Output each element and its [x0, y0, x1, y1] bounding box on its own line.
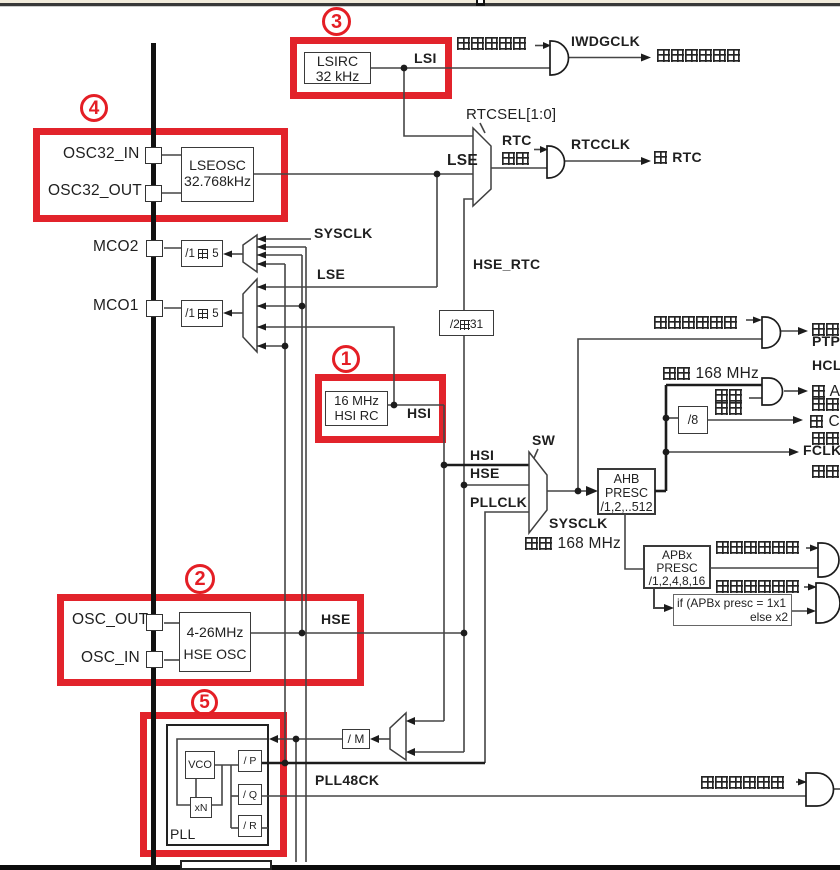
label LSE MCO	[317, 267, 345, 282]
wire PLLI2S vertical	[305, 247, 307, 862]
block divider /2 to 31	[439, 310, 494, 336]
and-gate IWDG	[550, 41, 569, 75]
label MCO1	[93, 298, 139, 314]
arrow if box input	[664, 604, 674, 612]
wire divider feed vertical	[230, 765, 232, 828]
wire MCO2 PLLI2S input	[257, 246, 306, 248]
arrow into M divider	[370, 735, 379, 743]
arrow MCO2 divider input	[223, 251, 232, 258]
wire HSE to PLL source mux	[414, 751, 464, 753]
arrow watchdog enable	[543, 42, 551, 49]
arrow HCLK output	[798, 387, 808, 395]
arrow MCO2 mux input PLLI2S	[257, 244, 266, 251]
wire SW mux output SYSCLK	[547, 490, 587, 492]
label HCLK out	[812, 358, 840, 373]
wire HSI output from RC	[388, 404, 444, 406]
top border line	[0, 3, 840, 6]
arrow PLL48 enable	[798, 779, 807, 786]
arrow PLL mux HSI input	[406, 717, 415, 725]
wire if box output	[792, 610, 809, 612]
label HSI at RC	[407, 406, 431, 421]
annotation red box 4	[33, 128, 288, 222]
wire to R divider	[231, 827, 238, 829]
wire to Q divider	[231, 795, 238, 797]
wire AHB output thick	[655, 490, 666, 493]
pad OSC32_IN	[145, 147, 162, 164]
arrow cortex timer	[793, 416, 803, 424]
wire MCO1 PLL input	[257, 345, 285, 347]
arrow IWDGCLK	[641, 54, 651, 62]
label free run	[812, 464, 840, 480]
wire R divider output	[262, 827, 268, 829]
wire OSC_OUT pad to HSE OSC	[164, 622, 179, 624]
wire PLLCLK vertical to MCO muxes	[284, 264, 286, 763]
PLLI2S cropped box	[180, 860, 272, 870]
wire OSC_IN pad to HSE OSC	[164, 659, 179, 661]
label RTCSEL	[466, 107, 556, 123]
and-gate PLL48	[806, 773, 834, 806]
label SYSCLK under SW	[549, 516, 608, 531]
block xN	[190, 797, 212, 818]
wire HSI to PLL source mux	[414, 720, 444, 722]
label to AHB	[812, 384, 840, 400]
label peripheral clock enable APB2	[716, 579, 800, 595]
label FCLK	[803, 443, 840, 458]
wire PLLI2S shared VCO input vertical	[295, 739, 297, 862]
and-gate ethernet PTP	[762, 317, 780, 348]
wire HCLK 168MHz to gate thick	[666, 384, 762, 387]
wire LSE drop to MCO1 mux	[436, 174, 438, 287]
wire APBx to if box	[654, 589, 666, 608]
label OSC32_OUT	[48, 183, 142, 199]
arrow RTC enable	[540, 146, 548, 153]
wire HSE_RTC vertical to RTC mux	[464, 199, 473, 310]
label peripheral clock enable PLL48	[701, 775, 785, 791]
wire HSI to SW mux thick	[444, 464, 529, 467]
label clock enable HCLK	[715, 388, 743, 404]
wire PLL internal input loop	[177, 739, 267, 805]
wire HCLK vertical thick	[665, 385, 668, 491]
block MCO1 divider /1 to 5	[181, 300, 223, 327]
junction dot HSE line right	[461, 630, 468, 637]
mux MCO1	[243, 279, 257, 352]
arrow APB enable 1	[810, 545, 819, 552]
junction dot FCLK	[663, 449, 670, 456]
arrow PLL mux HSE input	[406, 748, 415, 756]
label OSC_IN	[81, 650, 140, 666]
arrow MCO1 mux input LSE	[257, 284, 266, 291]
block R divider	[238, 815, 262, 837]
label SW	[532, 433, 555, 448]
junction dot PLL M	[293, 736, 300, 743]
block LSEOSC	[181, 147, 254, 202]
block HSI RC	[325, 391, 388, 426]
annotation number 1	[332, 345, 360, 373]
arrow MCO1 mux input HSE	[257, 303, 266, 310]
and-gate APB peripheral	[818, 543, 839, 577]
pad MCO1	[146, 300, 163, 317]
top cropped checkbox glyph	[476, 0, 485, 6]
wire PLL48 gate output	[834, 788, 840, 790]
wire LSE from LSEOSC to RTC mux	[254, 173, 473, 175]
wire VCO to dividers	[215, 764, 238, 766]
label to cortex	[810, 414, 840, 430]
wire M divider input from mux	[378, 738, 390, 740]
arrow PTP enable	[753, 317, 762, 324]
junction dot HSI SW	[441, 462, 448, 469]
arrow PTP output	[798, 327, 808, 335]
wire MCO1 LSE input	[257, 286, 437, 288]
wire HSI vertical	[443, 405, 445, 721]
block Q divider	[238, 784, 262, 805]
wire PLLCLK to SW mux	[485, 512, 529, 763]
block P divider	[238, 750, 262, 772]
junction dot HSI RC	[391, 402, 398, 409]
wire PTP gate output	[781, 330, 799, 332]
label PLL48CK	[315, 773, 379, 788]
wire HCLK enable stub	[749, 397, 762, 399]
block HSE OSC	[179, 612, 251, 672]
wire APB enable stub 2	[804, 586, 809, 588]
wire MCO2 mux output arrow line	[231, 253, 243, 255]
wire div8 input	[666, 417, 678, 419]
junction dot HSE line left	[299, 630, 306, 637]
wire AHB to APBx	[625, 514, 643, 569]
wire MCO1 HSE input	[257, 305, 302, 307]
label memory	[812, 397, 840, 413]
label LSI	[414, 51, 437, 66]
arrow MCO2 mux input PLL	[257, 261, 266, 268]
mux PLL source	[390, 713, 406, 760]
label peripheral clock enable APB1	[716, 540, 800, 556]
label peripheral clock enable PTP	[654, 315, 738, 331]
wire PTP enable stub	[746, 319, 754, 321]
wire RTC mux output	[491, 167, 547, 169]
annotation red box 5	[140, 712, 287, 857]
label OSC_OUT	[72, 612, 148, 628]
wire PLL M input	[277, 738, 342, 740]
wire IWDGCLK output	[568, 57, 642, 59]
wire SW select indicator	[534, 449, 538, 458]
wire PLL48CK from Q divider	[262, 795, 806, 797]
block if APBx presc	[673, 594, 792, 626]
wire FCLK output	[666, 451, 790, 453]
label max 168 MHz under SW	[525, 536, 621, 552]
junction dot LSI	[401, 65, 408, 72]
block VCO	[185, 751, 215, 779]
wire APB enable stub 1	[806, 547, 811, 549]
wire MCO1 HSI input	[257, 327, 394, 405]
label PLL	[170, 827, 196, 842]
wire MCO2 SYSCLK input stub	[257, 238, 311, 240]
junction dot HSE SW	[461, 482, 468, 489]
wire APBx output	[710, 567, 818, 569]
chip boundary bus	[151, 43, 156, 870]
block MCO2 divider /1 to 5	[181, 240, 223, 267]
label RTC enable	[502, 133, 532, 148]
junction dot PLLCLK P	[282, 760, 289, 767]
label watchdog enable	[457, 36, 527, 52]
wire watchdog enable stub	[535, 45, 543, 47]
wire xN output feedback	[212, 765, 222, 805]
top beige strip	[0, 0, 840, 3]
label max 168 MHz at HCLK	[663, 366, 759, 382]
wire LSI output	[371, 67, 550, 69]
label PLLCLK	[470, 495, 527, 510]
label HSE at SW	[470, 466, 500, 481]
pad OSC_OUT	[146, 614, 163, 631]
block LSIRC 32kHz	[304, 52, 371, 84]
and-gate RTC	[547, 146, 565, 178]
bottom border line	[0, 865, 840, 870]
annotation red box 1	[315, 374, 446, 443]
block M divider	[342, 729, 370, 749]
label SYSCLK MCO	[314, 226, 373, 241]
arrow FCLK	[789, 448, 799, 456]
pad OSC_IN	[146, 651, 163, 668]
label HSI at SW	[470, 448, 494, 463]
arrow MCO2 mux input SYSCLK	[257, 236, 266, 243]
junction dot SYSCLK	[575, 488, 582, 495]
wire MCO1 pad to divider	[164, 307, 181, 309]
block divider /8	[678, 406, 708, 434]
label ethernet PTP out	[812, 322, 840, 338]
wire RTCCLK output	[564, 160, 642, 162]
arrow MCO1 divider input	[223, 310, 232, 317]
wire HSE vertical to MCO muxes	[301, 255, 303, 633]
pad MCO2	[146, 240, 163, 257]
arrow if box output	[807, 608, 816, 615]
annotation red box 3	[290, 37, 452, 99]
arrow APB enable 2	[808, 584, 817, 591]
arrow into PLL box	[269, 735, 278, 743]
and-gate HCLK	[762, 378, 783, 405]
block PLL outer	[166, 724, 269, 846]
junction dot PLL MCO1	[282, 343, 289, 350]
wire MCO2 PLL input	[257, 263, 285, 265]
wire SYSCLK to ethernet PTP	[578, 339, 762, 491]
wire HSE to SW mux	[464, 484, 529, 486]
arrow MCO2 mux input HSE	[257, 252, 266, 259]
block AHB prescaler	[597, 468, 656, 515]
wire HCLK gate output	[784, 390, 799, 392]
label to RTC	[654, 150, 702, 165]
annotation number 5	[191, 689, 218, 716]
wire MCO1 mux output arrow line	[231, 312, 243, 314]
label HSE at OSC	[321, 612, 351, 627]
wire HSE line from oscillator	[251, 632, 464, 634]
arrow into AHB PRESC	[586, 486, 598, 496]
pad OSC32_OUT	[145, 185, 162, 202]
mux MCO2	[243, 235, 257, 272]
junction dot div8	[663, 415, 670, 422]
arrow MCO1 mux input HSI	[257, 324, 266, 331]
mux SW	[529, 452, 547, 533]
label HSE_RTC	[473, 257, 540, 272]
wire RTCSEL select indicator	[480, 123, 485, 133]
wire OSC32_OUT pad to LSEOSC	[162, 192, 181, 194]
label to independent watchdog	[657, 48, 741, 64]
label timer	[812, 431, 840, 447]
wire RTC enable stub	[534, 149, 541, 151]
wire MCO2 HSE input	[257, 254, 302, 256]
block APBx prescaler	[643, 545, 711, 589]
annotation number 2	[185, 564, 215, 594]
label RTCCLK	[571, 137, 630, 152]
annotation number 3	[322, 7, 351, 36]
arrow RTCCLK	[641, 157, 651, 165]
wire VCO bottom to xN	[195, 779, 197, 797]
mux RTCSEL	[473, 128, 491, 206]
junction dot HSE MCO1	[299, 303, 306, 310]
and-gate APB timer	[816, 583, 840, 623]
wire MCO2 pad to divider	[164, 247, 181, 249]
arrow MCO1 mux input PLL	[257, 343, 266, 350]
wire cortex timer output	[708, 419, 794, 421]
label MCO2	[93, 239, 139, 255]
wire PLL48 enable stub	[796, 781, 799, 783]
wire OSC32_IN pad to LSEOSC	[162, 154, 181, 156]
wire PLLCLK P output thick	[262, 762, 485, 765]
label OSC32_IN	[63, 146, 140, 162]
wire HSE vertical main	[463, 336, 465, 752]
label LSE at RTC mux	[447, 153, 478, 169]
junction dot LSE	[434, 171, 441, 178]
annotation number 4	[80, 94, 108, 122]
annotation red box 2	[57, 594, 364, 686]
label IWDGCLK	[571, 34, 640, 49]
wire LSI vertical drop	[404, 68, 473, 136]
